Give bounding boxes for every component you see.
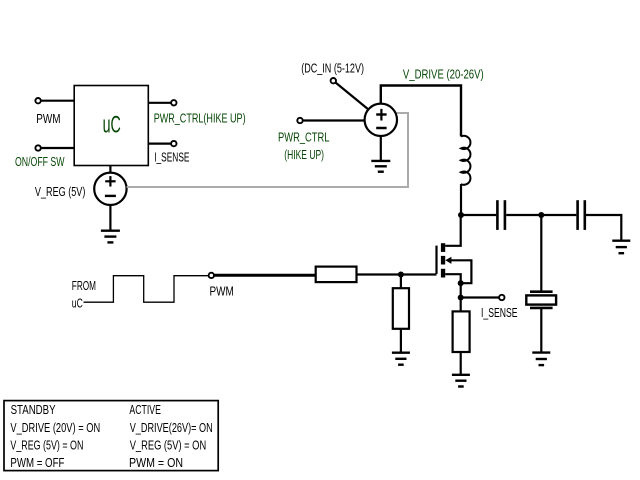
- pin PWR_CTRL (near source): [297, 118, 302, 123]
- resistor R3 (gate pulldown): [393, 288, 409, 329]
- label PWR_CTRL(HIKE UP): [154, 111, 246, 125]
- wire inductor to node A: [460, 184, 462, 215]
- label V_DRIVE (20-26V): [403, 68, 484, 82]
- resistor R2 (sense): [453, 311, 470, 352]
- svg-text:V_DRIVE(26V)= ON: V_DRIVE(26V)= ON: [130, 421, 213, 435]
- ground below V_REG: [101, 231, 120, 243]
- svg-text:V_REG (5V) = ON: V_REG (5V) = ON: [130, 439, 207, 453]
- wire DC_IN pin to source (diagonal): [336, 83, 369, 110]
- wire Q1 source to node C: [445, 274, 461, 283]
- transistor Q1 (N-MOSFET) gate bar: [435, 246, 437, 274]
- wire node D to I_SENSE pin: [461, 296, 499, 298]
- inductor L1: [461, 136, 470, 185]
- pin PWM (uC left top): [35, 98, 40, 103]
- svg-text:FROM: FROM: [72, 279, 96, 293]
- svg-text:V_REG (5V) = ON: V_REG (5V) = ON: [10, 439, 83, 453]
- pin I_SENSE (uC right bottom): [171, 141, 176, 146]
- svg-text:V_DRIVE (20V) = ON: V_DRIVE (20V) = ON: [10, 421, 100, 435]
- svg-text:I_SENSE: I_SENSE: [154, 151, 189, 165]
- wire node E to R3: [400, 275, 402, 289]
- junction node B: [538, 212, 544, 218]
- wire Q1 drain to node A: [445, 215, 461, 246]
- ground below R3: [392, 353, 410, 365]
- Q1 channel stubs: [441, 243, 445, 277]
- ground right of C2: [612, 241, 630, 254]
- wire uC pin PWR_CTRL: [148, 102, 170, 104]
- table box: [4, 401, 218, 471]
- wire uC pin PWM: [41, 100, 74, 102]
- wire V_REG source to ground: [109, 205, 111, 231]
- wire C2 to ground: [586, 215, 621, 241]
- capacitor C1: [497, 200, 505, 230]
- svg-text:I_SENSE: I_SENSE: [481, 306, 518, 320]
- label (DC_IN (5-12V): [301, 61, 364, 75]
- label PWM (drive input): [210, 285, 234, 299]
- svg-text:PWM = ON: PWM = ON: [129, 456, 183, 470]
- ground below DC_IN source: [371, 161, 390, 172]
- svg-text:ACTIVE: ACTIVE: [129, 403, 161, 417]
- wire crystal to ground: [540, 309, 542, 353]
- wire PWM pin to R1: [214, 274, 315, 277]
- svg-text:V_REG (5V): V_REG (5V): [35, 185, 86, 199]
- ground below R2: [452, 375, 470, 387]
- svg-text:(HIKE UP): (HIKE UP): [284, 148, 324, 162]
- IC U1 uC box: [74, 86, 148, 166]
- junction node E (gate): [398, 272, 404, 278]
- table label PWM = ON: [129, 456, 183, 470]
- pin DC_IN: [331, 78, 336, 83]
- label uC: [103, 111, 121, 138]
- wire uC pin ON/OFF SW: [41, 147, 74, 149]
- svg-text:PWR_CTRL: PWR_CTRL: [278, 131, 330, 145]
- table label V_REG (5V) = ON left: [10, 439, 83, 453]
- pin PWM (drive input): [209, 273, 214, 278]
- wire node D to R2: [460, 298, 462, 312]
- crystal Y1: [526, 292, 556, 308]
- label I_SENSE (sense output): [481, 306, 518, 320]
- wire node C to node D: [460, 283, 462, 297]
- wire node B to C2: [541, 214, 576, 216]
- table label ACTIVE: [129, 403, 161, 417]
- wire R2 to ground: [460, 352, 462, 375]
- wire node A to C1: [461, 214, 496, 216]
- svg-text:PWM: PWM: [210, 285, 234, 299]
- svg-text:(DC_IN (5-12V): (DC_IN (5-12V): [301, 61, 364, 75]
- svg-text:STANDBY: STANDBY: [11, 403, 57, 417]
- table label V_DRIVE(26V)= ON: [130, 421, 213, 435]
- label PWR_CTRL (line 1): [278, 131, 330, 145]
- label ON/OFF SW: [15, 155, 65, 169]
- gray net wire V_REG to DC_IN source: [127, 113, 408, 187]
- pin ON/OFF SW (uC left bottom): [35, 145, 40, 150]
- svg-text:uC: uC: [103, 111, 121, 138]
- wire R3 to ground: [400, 329, 402, 353]
- voltage source DC_IN: [365, 104, 397, 136]
- label PWM (uC left): [36, 112, 60, 126]
- PWM waveform: [84, 276, 209, 303]
- svg-text:PWM: PWM: [36, 112, 60, 126]
- label FROM: [72, 279, 96, 293]
- wire R1 to Q1 gate: [357, 273, 437, 275]
- wire PWR_CTRL pin to source: [303, 119, 364, 121]
- table label PWM = OFF: [10, 456, 64, 470]
- capacitor C2: [578, 200, 585, 230]
- wire V_DRIVE: source top to inductor: [381, 86, 461, 137]
- svg-text:ON/OFF SW: ON/OFF SW: [15, 155, 65, 169]
- table label STANDBY: [11, 403, 57, 417]
- wire C1 to node B: [506, 214, 541, 216]
- table label V_DRIVE (20V) = ON: [10, 421, 100, 435]
- svg-text:V_DRIVE (20-26V): V_DRIVE (20-26V): [403, 68, 484, 82]
- svg-text:uC: uC: [72, 296, 83, 310]
- pin PWR_CTRL (uC right top): [171, 100, 176, 105]
- wire DC_IN source to ground: [380, 136, 382, 161]
- junction node D: [458, 295, 464, 301]
- ground below crystal: [532, 353, 550, 366]
- label uC (waveform): [72, 296, 83, 310]
- Q1 body arrow: [445, 257, 471, 284]
- junction node C: [458, 280, 464, 286]
- resistor R1 (series gate): [316, 267, 357, 283]
- label V_REG (5V): [35, 185, 86, 199]
- svg-text:PWM = OFF: PWM = OFF: [10, 456, 64, 470]
- label (HIKE UP) (line 2): [284, 148, 324, 162]
- label I_SENSE (uC): [154, 151, 189, 165]
- wire node B to crystal: [540, 215, 542, 291]
- wire uC bottom to V_REG source: [109, 166, 111, 173]
- svg-text:PWR_CTRL(HIKE UP): PWR_CTRL(HIKE UP): [154, 111, 246, 125]
- wire uC pin I_SENSE: [148, 143, 170, 145]
- table label V_REG (5V) = ON right: [130, 439, 207, 453]
- junction node A: [458, 212, 464, 218]
- pin I_SENSE (sense output): [499, 295, 504, 300]
- voltage source V_REG (5V): [94, 173, 126, 205]
